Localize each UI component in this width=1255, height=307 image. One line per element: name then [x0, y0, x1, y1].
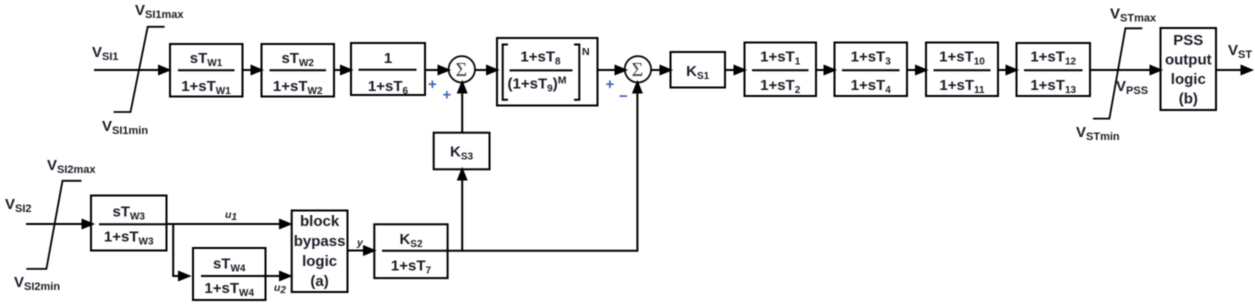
- limiter VSI1: [114, 27, 165, 112]
- svg-text:+: +: [443, 87, 452, 104]
- wire B7 to B8: [907, 66, 926, 74]
- wire input VSI2: [26, 220, 93, 228]
- svg-text:output: output: [1165, 52, 1212, 69]
- block sTW3/(1+sTW3): [91, 196, 167, 251]
- block sTW4/(1+sTW4): [193, 248, 266, 300]
- wire branch down to sTW4: [173, 224, 189, 280]
- svg-text:(a): (a): [310, 273, 328, 290]
- op summer U-sum1: [449, 56, 475, 82]
- svg-text:1+sT6: 1+sT6: [368, 78, 409, 97]
- block KS3: [434, 133, 490, 170]
- svg-text:1+sT1: 1+sT1: [760, 49, 801, 68]
- wire KS3 to summer1: [458, 83, 466, 133]
- svg-text:y: y: [356, 237, 364, 249]
- wire B8 to B9: [998, 66, 1017, 74]
- wire sTW4 to bypass logic u2: [266, 272, 291, 280]
- wire ramp block to summer2: [598, 66, 626, 74]
- wire B3 to summer1: [425, 66, 449, 74]
- block sTW1/(1+sTW1): [170, 44, 243, 97]
- svg-text:Σ: Σ: [632, 59, 644, 81]
- limiter VST: [1093, 28, 1142, 118]
- wire bypass logic to KS2 node y: [348, 247, 375, 255]
- wire B1 to B2: [243, 66, 262, 74]
- svg-text:1+sT7: 1+sT7: [391, 258, 432, 277]
- svg-text:+: +: [606, 76, 615, 93]
- svg-text:1: 1: [384, 50, 392, 67]
- wire branch up to KS3: [458, 170, 466, 251]
- svg-text:1+sT8: 1+sT8: [520, 49, 561, 68]
- block 1/(1+sT6): [351, 43, 425, 97]
- svg-text:+: +: [428, 76, 437, 93]
- limiter VSI2: [26, 181, 81, 269]
- wire sTW3 to bypass logic u1: [167, 220, 291, 228]
- svg-text:−: −: [619, 88, 628, 105]
- op summer U-sum2: [625, 56, 651, 82]
- block PSS output logic (b): [1161, 28, 1217, 110]
- block (1+sT1)/(1+sT2): [745, 43, 817, 97]
- wire KS2 output feedback to summer2: [448, 83, 642, 251]
- svg-text:u1: u1: [225, 209, 237, 223]
- wire KS1 to B6: [725, 66, 745, 74]
- svg-text:u2: u2: [274, 282, 286, 296]
- wire summer2 to KS1: [651, 66, 670, 74]
- svg-text:logic: logic: [1171, 71, 1206, 88]
- wire summer1 to ramp block: [475, 66, 497, 74]
- svg-text:Σ: Σ: [456, 59, 468, 81]
- block sTW2/(1+sTW2): [262, 44, 335, 97]
- svg-text:PSS: PSS: [1173, 32, 1203, 49]
- block (1+sT12)/(1+sT13): [1017, 43, 1091, 96]
- svg-text:block: block: [300, 213, 340, 230]
- svg-text:bypass: bypass: [294, 233, 346, 250]
- wire B9 to PSS logic crossing ST limiter: [1090, 66, 1161, 74]
- wire input VSI1: [94, 66, 169, 74]
- block KS1: [671, 52, 726, 88]
- svg-text:(b): (b): [1179, 91, 1198, 108]
- svg-text:1+sT2: 1+sT2: [760, 77, 801, 96]
- block ramp tracking [(1+sT8)/(1+sT9)^M]^N: [497, 38, 598, 106]
- wire B2 to B3: [334, 66, 351, 74]
- svg-text:1+sT4: 1+sT4: [851, 77, 892, 96]
- wire B6 to B7: [816, 66, 835, 74]
- wire output VST: [1216, 66, 1252, 74]
- block (1+sT3)/(1+sT4): [835, 43, 908, 97]
- block bypass logic (a): [292, 211, 348, 293]
- block KS2/(1+sT7): [374, 224, 447, 278]
- svg-text:1+sT3: 1+sT3: [851, 49, 892, 68]
- svg-text:logic: logic: [302, 253, 337, 270]
- block (1+sT10)/(1+sT11): [926, 43, 998, 97]
- svg-text:N: N: [582, 46, 590, 58]
